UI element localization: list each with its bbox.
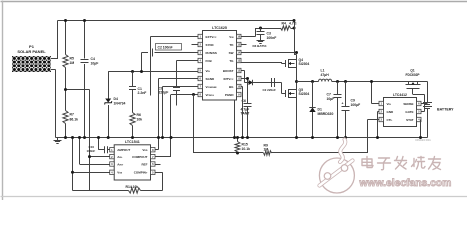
svg-text:10µF: 10µF — [327, 97, 335, 101]
svg-text:FCB: FCB — [206, 59, 213, 63]
svg-text:100nF: 100nF — [87, 149, 96, 153]
svg-text:100µF: 100µF — [351, 103, 361, 107]
svg-text:PGND: PGND — [225, 93, 235, 97]
svg-text:COMPIN+: COMPIN+ — [134, 171, 148, 175]
svg-text:1M: 1M — [264, 148, 269, 152]
svg-text:LTC1625: LTC1625 — [212, 26, 227, 30]
svg-text:R15: R15 — [242, 143, 248, 147]
svg-text:Q1: Q1 — [410, 69, 414, 73]
svg-text:2.2nF: 2.2nF — [138, 91, 147, 95]
svg-text:SENSE: SENSE — [403, 102, 413, 106]
svg-text:SW: SW — [229, 51, 234, 55]
svg-text:REF: REF — [142, 162, 148, 166]
svg-text:D4: D4 — [114, 97, 118, 101]
svg-text:GND: GND — [387, 110, 395, 114]
svg-text:R6: R6 — [137, 113, 141, 117]
svg-text:TANT: TANT — [241, 112, 251, 116]
svg-text:10k: 10k — [137, 118, 143, 122]
svg-text:C9: C9 — [351, 99, 355, 103]
svg-text:1M: 1M — [70, 61, 75, 65]
svg-text:R7: R7 — [70, 113, 74, 117]
svg-text:D1: D1 — [318, 108, 322, 112]
svg-text:SGND: SGND — [206, 77, 216, 81]
svg-text:GATE: GATE — [405, 110, 413, 114]
svg-text:86.1k: 86.1k — [70, 118, 79, 122]
svg-text:220pF: 220pF — [159, 91, 169, 95]
svg-text:1N4734: 1N4734 — [114, 102, 126, 106]
svg-text:10.1k: 10.1k — [242, 147, 251, 151]
svg-text:C2 100nF: C2 100nF — [158, 46, 173, 50]
svg-text:L1: L1 — [321, 69, 325, 73]
svg-text:47µH: 47µH — [321, 73, 330, 77]
svg-text:Si2304: Si2304 — [299, 92, 310, 96]
svg-text:D3 BAT54: D3 BAT54 — [253, 44, 267, 48]
svg-text:TG: TG — [229, 59, 234, 63]
svg-text:BG: BG — [229, 85, 234, 89]
svg-text:BOOST: BOOST — [223, 69, 234, 73]
svg-text:LTC4412: LTC4412 — [393, 93, 407, 97]
svg-text:+: + — [342, 102, 344, 106]
svg-text:DN413 F01: DN413 F01 — [416, 138, 432, 142]
svg-text:R5: R5 — [70, 57, 74, 61]
svg-text:4.7Ω: 4.7Ω — [289, 22, 297, 26]
svg-text:FDC602P: FDC602P — [406, 73, 421, 77]
svg-text:SOLAR PANEL: SOLAR PANEL — [17, 49, 46, 54]
svg-text:LTC1541: LTC1541 — [125, 140, 140, 144]
svg-text:RUN/SS: RUN/SS — [206, 51, 217, 55]
svg-text:C3: C3 — [267, 32, 271, 36]
svg-text:STAT: STAT — [406, 118, 414, 122]
svg-text:BATTERY: BATTERY — [437, 108, 454, 112]
svg-text:SYNC: SYNC — [206, 43, 215, 47]
svg-text:CTL: CTL — [387, 118, 393, 122]
svg-text:Si2304: Si2304 — [299, 62, 310, 66]
svg-text:C7: C7 — [327, 93, 331, 97]
svg-text:C2 220nF: C2 220nF — [263, 88, 277, 92]
svg-text:100nF: 100nF — [267, 36, 277, 40]
svg-text:10µF: 10µF — [91, 62, 99, 66]
svg-text:MBRD330: MBRD330 — [318, 112, 334, 116]
svg-text:www.elecfans.com: www.elecfans.com — [359, 178, 452, 189]
svg-text:R14 10k: R14 10k — [126, 185, 139, 189]
svg-text:R4: R4 — [282, 22, 286, 26]
svg-text:C4: C4 — [91, 57, 95, 61]
svg-text:COMPOUT: COMPOUT — [132, 155, 148, 159]
svg-text:AMPOUT: AMPOUT — [117, 148, 130, 152]
